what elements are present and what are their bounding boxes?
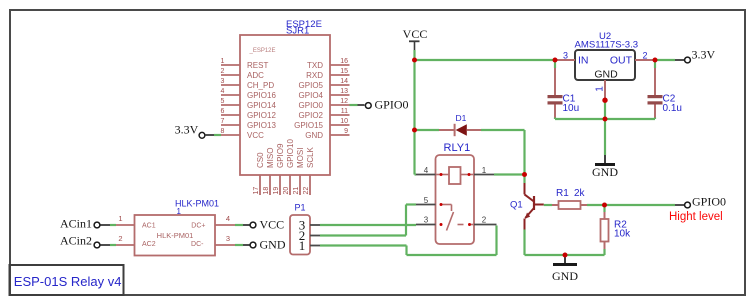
svg-text:4: 4 xyxy=(221,88,225,95)
svg-text:GPIO9: GPIO9 xyxy=(276,143,285,168)
svg-text:VCC: VCC xyxy=(247,131,264,140)
svg-text:8: 8 xyxy=(221,128,225,135)
svg-text:21: 21 xyxy=(293,187,300,195)
svg-text:HLK-PM01: HLK-PM01 xyxy=(175,199,219,209)
svg-text:22: 22 xyxy=(303,187,310,195)
svg-text:10u: 10u xyxy=(563,103,580,114)
svg-text:RLY1: RLY1 xyxy=(444,142,471,154)
svg-text:16: 16 xyxy=(340,58,348,65)
svg-text:20: 20 xyxy=(283,187,290,195)
svg-text:_ESP12E: _ESP12E xyxy=(249,48,276,54)
svg-text:GPIO12: GPIO12 xyxy=(247,111,276,120)
svg-text:GPIO15: GPIO15 xyxy=(294,121,323,130)
svg-text:13: 13 xyxy=(340,88,348,95)
svg-text:10: 10 xyxy=(340,118,348,125)
svg-text:VCC: VCC xyxy=(260,218,285,232)
svg-text:1: 1 xyxy=(221,58,225,65)
svg-text:4: 4 xyxy=(226,214,230,223)
svg-text:GPIO16: GPIO16 xyxy=(247,91,276,100)
svg-text:DC+: DC+ xyxy=(191,223,205,230)
svg-text:GPIO4: GPIO4 xyxy=(299,91,324,100)
svg-text:GPIO10: GPIO10 xyxy=(286,139,295,168)
svg-text:AC1: AC1 xyxy=(142,223,156,230)
svg-text:3: 3 xyxy=(424,216,429,225)
svg-text:3: 3 xyxy=(563,51,568,61)
svg-text:0.1u: 0.1u xyxy=(663,103,682,114)
svg-text:4: 4 xyxy=(424,166,429,175)
svg-text:GND: GND xyxy=(305,131,323,140)
svg-text:HLK-PM01: HLK-PM01 xyxy=(157,231,194,240)
svg-text:5: 5 xyxy=(424,196,429,205)
svg-text:REST: REST xyxy=(247,61,268,70)
svg-text:17: 17 xyxy=(253,187,260,195)
svg-text:3: 3 xyxy=(221,78,225,85)
svg-text:19: 19 xyxy=(273,187,280,195)
svg-text:MOSI: MOSI xyxy=(296,148,305,168)
svg-text:ADC: ADC xyxy=(247,71,264,80)
svg-text:1: 1 xyxy=(482,166,487,175)
svg-text:VCC: VCC xyxy=(403,27,428,41)
svg-text:Q1: Q1 xyxy=(510,200,523,211)
svg-text:11: 11 xyxy=(341,108,348,115)
svg-text:GPIO5: GPIO5 xyxy=(299,81,324,90)
svg-text:6: 6 xyxy=(221,108,225,115)
svg-text:MISO: MISO xyxy=(266,148,275,168)
svg-text:14: 14 xyxy=(340,78,348,85)
svg-text:TXD: TXD xyxy=(307,61,323,70)
svg-text:SJR1: SJR1 xyxy=(286,26,309,37)
svg-text:10k: 10k xyxy=(614,229,631,240)
svg-text:IN: IN xyxy=(578,55,589,67)
svg-text:2k: 2k xyxy=(574,188,586,199)
svg-text:AC2: AC2 xyxy=(142,241,156,248)
svg-text:P1: P1 xyxy=(295,203,306,213)
svg-text:15: 15 xyxy=(340,68,348,75)
svg-text:AMS1117S-3.3: AMS1117S-3.3 xyxy=(575,40,639,51)
svg-text:3.3V: 3.3V xyxy=(175,123,199,137)
svg-text:GND: GND xyxy=(260,238,286,252)
svg-text:OUT: OUT xyxy=(610,55,633,67)
svg-text:Hight level: Hight level xyxy=(669,211,723,223)
svg-text:18: 18 xyxy=(263,187,270,195)
svg-text:7: 7 xyxy=(221,118,225,125)
svg-text:ACin2: ACin2 xyxy=(60,234,92,248)
svg-text:RXD: RXD xyxy=(306,71,323,80)
svg-text:D1: D1 xyxy=(456,113,467,123)
svg-text:GPIO0: GPIO0 xyxy=(692,195,726,209)
svg-text:9: 9 xyxy=(344,128,348,135)
svg-text:2: 2 xyxy=(221,68,225,75)
svg-text:2: 2 xyxy=(118,234,122,243)
svg-text:SCLK: SCLK xyxy=(306,146,315,168)
svg-text:GPIO13: GPIO13 xyxy=(247,121,276,130)
svg-text:1: 1 xyxy=(118,214,122,223)
svg-text:3.3V: 3.3V xyxy=(692,48,716,62)
svg-text:3: 3 xyxy=(226,234,230,243)
svg-text:5: 5 xyxy=(221,98,225,105)
svg-text:2: 2 xyxy=(642,51,647,61)
svg-text:GND: GND xyxy=(552,269,578,283)
svg-text:2: 2 xyxy=(482,216,487,225)
svg-text:CH_PD: CH_PD xyxy=(247,81,274,90)
svg-text:GND: GND xyxy=(594,69,618,81)
svg-text:12: 12 xyxy=(340,98,348,105)
svg-text:ACin1: ACin1 xyxy=(60,217,92,231)
svg-text:ESP-01S Relay v4: ESP-01S Relay v4 xyxy=(14,274,122,289)
svg-text:DC-: DC- xyxy=(191,241,204,248)
svg-text:1: 1 xyxy=(299,238,306,253)
svg-text:GPIO0: GPIO0 xyxy=(375,98,409,112)
svg-text:R1: R1 xyxy=(556,188,569,199)
svg-text:GPIO14: GPIO14 xyxy=(247,101,276,110)
svg-text:GND: GND xyxy=(592,165,618,179)
svg-text:GPIO2: GPIO2 xyxy=(299,111,324,120)
svg-text:GPIO0: GPIO0 xyxy=(299,101,324,110)
svg-text:CS0: CS0 xyxy=(256,152,265,168)
svg-text:1: 1 xyxy=(595,86,606,92)
